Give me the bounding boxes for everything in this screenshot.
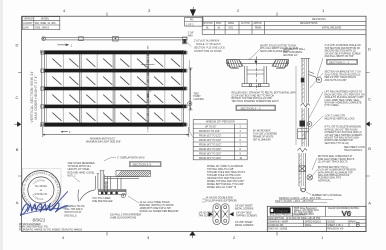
section 2-2 right flange hatch [272,60,289,68]
stile 3 double line [147,54,149,123]
svg-text:LIFT RAIL FASTENED ACROSS TO: LIFT RAIL FASTENED ACROSS TO [325,91,363,94]
svg-text:TAPPING SCREWS: TAPPING SCREWS [236,214,257,217]
svg-text:B: B [16,147,19,152]
svg-text:BATTEN. TOP ONE WITH (4) 1/4"x: BATTEN. TOP ONE WITH (4) 1/4"x5/8" [232,97,273,100]
top rail black bar [44,51,187,55]
bottom width dimension [43,127,189,137]
svg-text:MAX: MAX [188,34,193,37]
brand/model table top-left [22,17,60,30]
svg-text:BOTTOM SEAL IN BRACKET AT: BOTTOM SEAL IN BRACKET AT [318,155,353,158]
svg-text:IF TIL 'OR TO DELETE WINDOWS: IF TIL 'OR TO DELETE WINDOWS [325,127,362,129]
svg-text:DESIGN ENGINEER: DESIGN ENGINEER [19,224,41,226]
svg-text:C: C [368,97,371,102]
stamp inner circle [28,177,54,203]
svg-text:No 49419: No 49419 [35,184,47,188]
hinge dots on stiles [79,70,149,108]
svg-text:TOP RAIL 6061-T6 2.125": TOP RAIL 6061-T6 2.125" [207,168,234,171]
stile rod posts above track [96,174,99,190]
title block vertical dividers [292,206,349,231]
svg-text:GALV STEEL TRACK BOLTED (2): GALV STEEL TRACK BOLTED (2) [325,73,361,76]
section 2-2 left flange hatch [227,60,244,68]
svg-text:SECTION 3-3: SECTION 3-3 [133,163,152,167]
section 1-1 label box [327,59,358,64]
svg-text:METAL SCREWS: METAL SCREWS [235,207,254,210]
svg-text:ANGLE TO PLACING ADJUST CURT: ANGLE TO PLACING ADJUST CURT [325,96,365,99]
intermediate rail bar 2 [44,69,187,73]
svg-text:1" OVERLAP BOTH SAYS: 1" OVERLAP BOTH SAYS [117,157,145,160]
svg-text:CONNECT OF LOCK RAIL AND (4): CONNECT OF LOCK RAIL AND (4) [325,131,362,134]
svg-text:INITIAL RELEASE: INITIAL RELEASE [322,26,342,29]
jamb hatch marks [299,60,304,183]
svg-text:FROM 8'3" TO 10'2": FROM 8'3" TO 10'2" [199,131,220,133]
section 3-3 label box [130,162,162,167]
svg-text:B: B [356,221,360,228]
svg-text:HDTL 2: HDTL 2 [68,176,77,178]
glazing marks row 1 [53,59,62,67]
right arrow into hinge [230,212,234,216]
header track bar above door [42,37,187,40]
svg-text:DESCRIPTIONS: DESCRIPTIONS [300,23,318,25]
svg-text:MODEL: MODEL [41,19,50,21]
svg-text:2"x2"x1/8" ALUMINUM ANGLE ON: 2"x2"x1/8" ALUMINUM ANGLE ON [325,44,361,47]
svg-text:FROM 14'3" TO 16'2": FROM 14'3" TO 16'2" [199,144,221,146]
svg-text:SYM NO: SYM NO [204,23,213,25]
svg-text:ROLLER ASSY: STRAIGHT TO RECTA: ROLLER ASSY: STRAIGHT TO RECTA. BOTTOM R… [232,92,297,95]
zone tick marks right border [366,73,370,177]
svg-text:LOCKING: LOCKING [194,99,205,101]
svg-text:APPVD: APPVD [254,22,262,25]
section 2-2 center bolt [255,60,257,62]
svg-text:WINDOW QTY PER DOOR: WINDOW QTY PER DOOR [206,122,235,124]
mullion 4 [164,54,166,123]
svg-text:JAMB WITH ONE 5/16"x1 5/8": JAMB WITH ONE 5/16"x1 5/8" [140,207,172,210]
svg-text:1/4"x3/4" SELF TAPPING SCREWS: 1/4"x3/4" SELF TAPPING SCREWS [325,134,363,137]
svg-text:12 GA. GALV STEEL TRACK: 12 GA. GALV STEEL TRACK [140,201,171,204]
mid hardware blob [300,121,306,127]
mullion 2 [96,54,98,123]
svg-text:AND NUTS ON UNIT: AND NUTS ON UNIT [325,79,348,82]
svg-text:POINT: POINT [194,96,202,98]
svg-text:1 OF 2" LANG-CTR: 1 OF 2" LANG-CTR [325,115,346,118]
svg-text:END SILLS: END SILLS [65,215,77,217]
zone tick marks bottom border [107,232,277,236]
section 2 label upper [141,64,155,66]
svg-text:V6: V6 [342,209,351,218]
svg-text:DWG NO: 102685: DWG NO: 102685 [268,229,288,231]
section 2-2 centerline [256,57,258,91]
svg-text:SCALE: SCALE [327,220,335,223]
svg-text:ON BOTTOM OF DOOR: ON BOTTOM OF DOOR [194,50,222,53]
svg-text:C: C [16,95,19,100]
svg-text:DRAWN BY: WWR: DRAWN BY: WWR [268,220,288,223]
svg-text:BY MICROVENT,: BY MICROVENT, [253,130,271,132]
svg-text:TOP SECTION AND BOTTOM OF: TOP SECTION AND BOTTOM OF [325,47,361,50]
section 2-2 top channel [227,60,289,64]
svg-text:1/4"x5/8" SHEET: 1/4"x5/8" SHEET [235,222,253,224]
svg-text:REVISION: V/6: REVISION: V/6 [327,229,344,231]
svg-text:ONE GALV STEEL TRACK BOLTS: ONE GALV STEEL TRACK BOLTS [318,158,355,161]
svg-text:(2) 1/4"x5/8" BOLT AND NUT TO: (2) 1/4"x5/8" BOLT AND NUT TO PIN ON [232,94,275,97]
svg-text:14 GAUGE DOUBLE END: 14 GAUGE DOUBLE END [206,196,234,199]
svg-text:8/9/21: 8/9/21 [33,218,46,223]
section 3-3 bottom track band [99,190,127,195]
svg-text:RWW: RWW [255,27,262,29]
title block horizontal lines [267,217,366,227]
svg-text:WITH ANY ADHESIVE COMPLETE: WITH ANY ADHESIVE COMPLETE [325,102,362,105]
scanner edge shading left [0,0,3,250]
header track left end cap circle [42,37,46,41]
svg-text:STATE OF: STATE OF [35,192,48,196]
leader from note to section detail [248,49,260,60]
zone tick marks top border [107,13,277,17]
blue signature [21,203,68,215]
svg-text:PWC: PWC [216,23,222,25]
section 2-2 bracket assembly [245,66,267,84]
svg-text:1/4"x3/4" SELF: 1/4"x3/4" SELF [236,212,252,214]
glazing marks row 3 [53,95,62,103]
svg-text:STD END STILE ON THE LOCK: STD END STILE ON THE LOCK [207,175,241,177]
small dim tick [61,131,68,132]
svg-text:MODEL RAIL ALL 6.063" T6: MODEL RAIL ALL 6.063" T6 [207,186,237,189]
svg-text:WITH (2) 1/8"x1/2" TEK FLUSH,: WITH (2) 1/8"x1/2" TEK FLUSH, [325,129,359,131]
svg-text:SHEET 1 OF 1: SHEET 1 OF 1 [327,225,343,227]
svg-text:Clopay: Clopay [274,208,289,213]
header track splice plate left [79,37,84,41]
svg-text:3"x5"x1/8" LOUVERED: 3"x5"x1/8" LOUVERED [253,133,277,135]
svg-text:B: B [368,146,371,151]
svg-text:ASTRAGAL: ASTRAGAL [318,179,331,182]
section 2-2 label box [236,105,276,110]
svg-text:TWO: TWO [194,93,200,95]
svg-text:TPN SCREW: TPN SCREW [199,215,214,217]
section 3-3 jamb vertical member [105,175,111,193]
svg-text:FLORIDA P.E. #49419, NC P.E. #: FLORIDA P.E. #49419, NC P.E. #23805, TEX… [19,229,83,232]
svg-text:ANCHOR 1/2": ANCHOR 1/2" [283,54,298,57]
svg-text:2 1/4": 2 1/4" [188,33,194,35]
svg-text:SECTION VIA BRACKET AT 1" OA: SECTION VIA BRACKET AT 1" OA [325,71,362,74]
svg-text:WOOD LAG SCREW PER BRACKET: WOOD LAG SCREW PER BRACKET [140,210,180,213]
svg-text:DESCRIPTION: DESCRIPTION [268,218,284,220]
lower roller circle [307,175,313,181]
signature flourish [50,192,68,211]
svg-text:FROM 20'3" TO 20'2": FROM 20'3" TO 20'2" [199,158,221,160]
jamb break squiggle lower [298,148,308,152]
svg-text:STD END STILE AND TRUE STILTS: STD END STILE AND TRUE STILTS [207,171,246,174]
svg-text:D: D [368,47,371,52]
svg-text:SECTION 1 - 1: SECTION 1 - 1 [329,60,350,64]
jamb top cap [301,57,310,59]
svg-text:CLOPAY: CLOPAY [23,22,33,25]
drawing border frame [22,16,366,231]
svg-text:METAL SCREWS: METAL SCREWS [235,224,254,227]
header track splice plate center [113,36,119,41]
intermediate rail bar 3 [44,87,187,91]
svg-text:(TYP 4 SIDE): (TYP 4 SIDE) [325,105,339,107]
svg-text:TRACK DETAILS: TRACK DETAILS [344,149,363,152]
jamb break squiggle upper [301,103,311,107]
svg-text:DATE: DATE [228,22,234,25]
svg-text:SEE SHEET 2 FOR: SEE SHEET 2 FOR [344,147,365,149]
svg-text:WITH APPLIED ALUMINUM TOP: WITH APPLIED ALUMINUM TOP [318,171,353,174]
svg-text:FRAME OF VENTS: FRAME OF VENTS [253,135,274,138]
window qty table [193,120,247,160]
page box PG 1 OF 2 [185,18,204,27]
svg-text:ROLLER HINGE (EXTERIOR): ROLLER HINGE (EXTERIOR) [206,200,238,202]
svg-text:FROM 10'3" TO 12'2": FROM 10'3" TO 12'2" [199,135,221,137]
svg-text:SECTION (TYP 10 GA): SECTION (TYP 10 GA) [325,142,350,145]
svg-text:LM-8: LM-8 [23,27,29,29]
svg-text:RIVETS AND SCREW TOP: RIVETS AND SCREW TOP [325,139,354,142]
svg-text:MARK WESTERFIELD, P.E.: MARK WESTERFIELD, P.E. [19,226,49,229]
two point lock symbol [188,102,192,106]
engineer stamp light box [22,169,61,210]
svg-text:PG: PG [190,20,194,22]
hinge plate left oblong [213,204,221,225]
svg-text:ONE STILES REVERSED: ONE STILES REVERSED [68,163,95,165]
leader from stiles note [74,178,80,183]
leader lines from jamb section to notes [306,58,323,195]
svg-text:MODEL NO. (536D-T) ALUMINUM: MODEL NO. (536D-T) ALUMINUM [207,165,243,168]
svg-text:ICE PAUL 2 FOR DIFFERENT: ICE PAUL 2 FOR DIFFERENT [110,213,142,216]
leader line vertical right of door [189,60,192,137]
section cut marker 1 with arrow [58,44,69,46]
svg-text:CENTER STILT PAIN THE LOCK: CENTER STILT PAIN THE LOCK [207,177,242,180]
title block outer box [267,206,366,231]
svg-text:TO MOVE WITH FULL: TO MOVE WITH FULL [68,166,92,168]
svg-text:1/4"x5/8" SHEET: 1/4"x5/8" SHEET [235,205,253,207]
centering arrow bottom [190,231,196,238]
mid bracket lines [298,129,310,140]
section 3-3 track angle profile [105,176,140,189]
svg-text:SHORT STILES DOTTED TO RAIL: SHORT STILES DOTTED TO RAIL [260,44,297,47]
door inner edge lines [46,54,182,123]
svg-text:MAXIMUM WIDTH 16'2": MAXIMUM WIDTH 16'2" [90,137,116,140]
mullion 3 [130,54,132,123]
svg-text:EACH SECTION, UP 1 PER UNIT. O: EACH SECTION, UP 1 PER UNIT. ON [325,93,365,96]
Clopay logo black box [270,207,291,213]
edge hinge brackets right [184,51,187,54]
svg-text:MULTIPLE VERTICAL LOCK: MULTIPLE VERTICAL LOCK [325,117,356,120]
svg-text:REVISIONS: REVISIONS [312,18,326,21]
svg-text:LOCK JAMB, SEAL OPEN, SEAL: LOCK JAMB, SEAL OPEN, SEAL [325,99,361,102]
svg-text:A: A [368,201,371,206]
svg-text:SET ALUMINUM: SET ALUMINUM [253,138,270,141]
intermediate rail bar 4 [44,105,187,109]
svg-text:FLEXIBLE SEAL FITS: FLEXIBLE SEAL FITS [318,177,342,180]
mid roller circle [307,122,312,127]
top track hardware blob [301,78,305,83]
svg-text:Fax: 513-770-3519: Fax: 513-770-3519 [294,214,314,216]
top roller bracket arm [309,72,318,80]
svg-text:★: ★ [40,189,42,192]
svg-text:BRACKET (MNT'NG) TO WOOD: BRACKET (MNT'NG) TO WOOD [140,204,174,207]
svg-text:1 OF 2: 1 OF 2 [186,23,194,26]
svg-text:LENGTH 1/4" STEEL: LENGTH 1/4" STEEL [68,169,91,171]
svg-text:1/4"x20 SELF: 1/4"x20 SELF [199,212,214,214]
stamp outer circle [22,171,61,210]
svg-text:UP TO 8'2": UP TO 8'2" [205,126,217,128]
svg-text:A: A [16,200,19,205]
svg-text:MOUNT TOP RAIL WITH FLUSH: MOUNT TOP RAIL WITH FLUSH [325,137,360,140]
bottom rail black bar [44,123,187,127]
section 3-3 roller [121,194,125,198]
left dimension line door height [40,51,45,126]
stile 1 double line [79,54,81,123]
svg-text:7/16" PVC LINER,: 7/16" PVC LINER, [92,198,111,200]
section cut line 2 vertical [147,46,149,132]
svg-text:FROM 16'3" TO 18'2": FROM 16'3" TO 18'2" [199,149,221,151]
svg-text:BOTTOM SECTION (TYP) 2-: BOTTOM SECTION (TYP) 2- [318,167,349,169]
svg-text:AND FULL WIDTH ON TOP: AND FULL WIDTH ON TOP [325,55,354,58]
glazing marks row 4 [53,113,62,121]
svg-text:FROM 12'3" TO 14'2": FROM 12'3" TO 14'2" [199,140,221,142]
svg-text:JAMB CUN-DURATIONS: JAMB CUN-DURATIONS [110,216,137,219]
centering arrow top [190,7,196,16]
svg-text:WILL TOP RAILS: WILL TOP RAILS [65,208,83,211]
section 3-3 wood header hatched [116,171,151,177]
svg-text:ALTA 36A OR 36DE +48/-48: ALTA 36A OR 36DE +48/-48 PSF [286,217,321,220]
svg-text:1/4"x3/4" SELF-TAPPING SCREW: 1/4"x3/4" SELF-TAPPING SCREW [325,52,362,55]
revisions table [202,16,366,34]
svg-text:SECOND SECTION WITH (2): SECOND SECTION WITH (2) [325,51,356,53]
svg-text:(2) 1/4"x5/8" TRACK BOLTS: (2) 1/4"x5/8" TRACK BOLTS [318,161,348,164]
lower hardware X plate [299,166,305,172]
svg-text:PER 1/4"x5/8" TRACK BOLTS: PER 1/4"x5/8" TRACK BOLTS [325,76,357,79]
svg-text:CATALOG NO:: CATALOG NO: [268,224,284,227]
svg-text:D: D [16,43,19,48]
svg-text:MAX DOOR HEIGHT 27'1": MAX DOOR HEIGHT 27'1" [34,75,38,119]
svg-text:MAXIMUM DAYLIGHT SIZE 36'6": MAXIMUM DAYLIGHT SIZE 36'6" [86,141,121,144]
svg-text:36A, 36DE, 44, 48S: 36A, 36DE, 44, 48S [35,22,56,25]
svg-text:DWGL: DWGL [305,225,313,227]
edge hinge brackets left [41,51,45,54]
svg-text:RAIL AND INSTALLATION OF: RAIL AND INSTALLATION OF [318,174,350,177]
svg-text:NOTCH CUT AT: NOTCH CUT AT [65,211,83,214]
zone tick marks left border [18,73,22,177]
svg-text:FROM 18'3" TO 20'2": FROM 18'3" TO 20'2" [199,153,221,155]
header track right end bracket [182,37,186,44]
svg-text:9/21: 9/21 [229,27,234,29]
svg-text:MODEL BOTTOM RAIL TYN 6.063": MODEL BOTTOM RAIL TYN 6.063" [207,183,244,186]
centering arrow left [14,122,21,127]
svg-text:MODEL TOP RAIL AND STD 6.063": MODEL TOP RAIL AND STD 6.063" [207,180,244,183]
right vertical dimension [189,68,193,110]
svg-text:CLH HD: CLH HD [241,23,250,25]
svg-text:JMB, CONCRETE: JMB, CONCRETE [283,52,302,54]
svg-text:ONE PER ROLLER: ONE PER ROLLER [92,201,113,203]
centering arrow right [366,122,372,127]
svg-text:2"x3"x1/8" ALUMINUM EXTRUSION: 2"x3"x1/8" ALUMINUM EXTRUSION [318,169,356,172]
bottom astragal cap [301,187,306,193]
svg-text:BRAND: BRAND [25,18,33,21]
section 3-3 vertical track and curve [100,171,105,190]
svg-text:TEK HOLD SHARPEN SCREWS PER EA: TEK HOLD SHARPEN SCREWS PER EACH [232,100,279,103]
svg-text:SECTION 2 - 2: SECTION 2 - 2 [241,106,262,110]
svg-text:SECURED TO WALL: SECURED TO WALL [283,48,306,51]
dimension line left of jamb [295,66,297,145]
stile 2 double line [113,54,115,123]
svg-text:ROD AND HAND I LEVEL: ROD AND HAND I LEVEL [68,171,96,174]
top roller circle [316,77,322,83]
door elevation outline [45,51,184,127]
svg-text:CWS, 1340-S: CWS, 1340-S [35,27,50,29]
hinge plate right oblong [221,204,229,225]
vertical jamb section: jamb double lines [299,59,309,187]
mullion 1 [62,54,64,123]
left arrow into hinge [209,212,213,216]
svg-text:DATED 6/25/21: DATED 6/25/21 [305,220,322,223]
glazing marks row 2 [53,77,62,85]
